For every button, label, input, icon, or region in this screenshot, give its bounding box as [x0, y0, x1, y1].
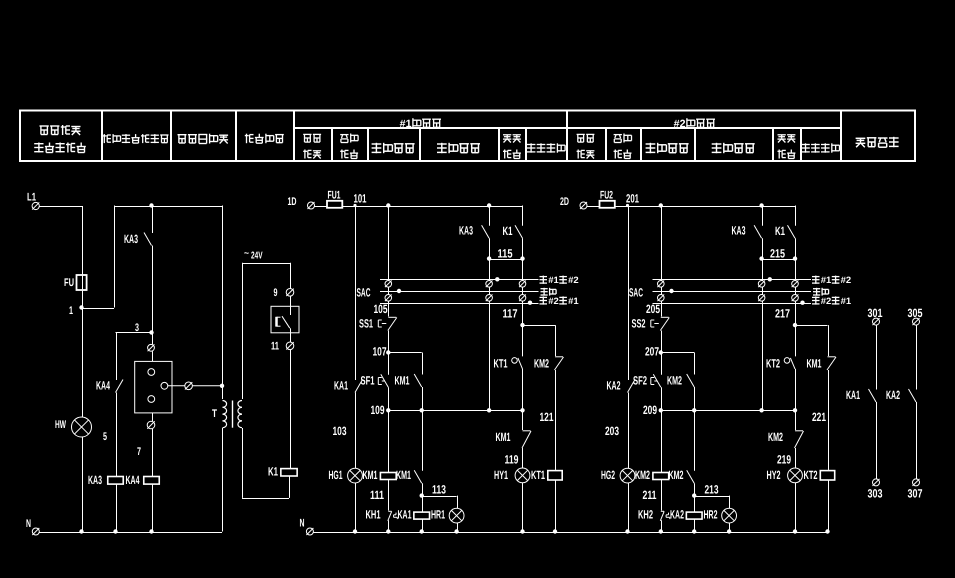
- terminal 11: [271, 328, 294, 352]
- svg-text:SAC: SAC: [629, 286, 643, 300]
- terminal above level-relay box: [148, 333, 155, 362]
- node 1D: [288, 196, 315, 209]
- svg-text:101: 101: [354, 192, 367, 206]
- svg-text:HR1: HR1: [431, 508, 445, 522]
- node N left: [26, 518, 39, 535]
- svg-text:SAC: SAC: [357, 286, 371, 300]
- coil KT2: [804, 468, 835, 482]
- wire label 215 connector: [759, 238, 797, 261]
- seal-in contact KM1: [388, 353, 424, 413]
- table cell: 控制变压器: [178, 134, 229, 144]
- wire top rail down to transformer primary: [222, 206, 224, 400]
- table cell: 返回信号: [856, 137, 899, 147]
- svg-text:FU2: FU2: [600, 190, 613, 202]
- svg-text:#1: #1: [548, 275, 559, 285]
- wire auto line to bus: [762, 303, 764, 411]
- lamp HR1: [422, 496, 464, 523]
- wire node1 up-branch to top rail: [82, 206, 222, 309]
- svg-text:203: 203: [605, 424, 619, 438]
- svg-text:L1: L1: [27, 192, 36, 204]
- table cell: 控制/电源: [577, 134, 595, 158]
- svg-text:7: 7: [137, 446, 141, 458]
- svg-text:1D: 1D: [288, 196, 297, 208]
- wire HY2 to N: [793, 483, 797, 534]
- coil KA4: [126, 473, 160, 487]
- svg-text:303: 303: [868, 487, 883, 501]
- contact KA3 (auto feed): [732, 206, 763, 239]
- wire HR2 to N: [727, 523, 731, 534]
- table cell: 自动控制: [437, 143, 480, 153]
- svg-text:KA2: KA2: [670, 508, 684, 522]
- level relay box: [135, 361, 172, 413]
- return signal terminal 303: [868, 402, 883, 501]
- svg-text:KA1: KA1: [398, 508, 412, 522]
- svg-text:KT1: KT1: [494, 357, 508, 371]
- svg-text:209: 209: [643, 403, 657, 417]
- svg-text:119: 119: [505, 453, 519, 467]
- svg-text:2D: 2D: [560, 196, 569, 208]
- wire coil KA1 to N: [420, 519, 424, 534]
- svg-text:#2: #2: [548, 296, 559, 306]
- interlock contact KM2: [523, 325, 564, 370]
- wire KH1 to N: [386, 520, 390, 533]
- svg-text:KM1: KM1: [396, 468, 411, 482]
- wire transformer primary bottom to N rail: [222, 428, 224, 532]
- table cell: 电接点温度自控: [103, 134, 169, 143]
- svg-text:HW: HW: [55, 419, 66, 431]
- table cell: 备用自投: [801, 143, 839, 152]
- wire manual/auto bus: [661, 408, 797, 412]
- selector switch SAC: [629, 277, 811, 305]
- SAC contacts on auto lines: [758, 259, 765, 303]
- wire label 107: [373, 331, 391, 359]
- svg-text:KT2: KT2: [766, 357, 780, 371]
- return signal terminal 307: [908, 402, 923, 501]
- svg-text:KM1: KM1: [807, 357, 822, 371]
- svg-text:213: 213: [705, 483, 719, 497]
- table header: #2泵控制: [674, 118, 715, 130]
- svg-text:K1: K1: [775, 224, 785, 238]
- fault NC contact KM2: [768, 410, 804, 448]
- delay contact KT2: [766, 325, 796, 410]
- lamp HG1: [329, 468, 363, 483]
- fault NC contact KM1: [496, 410, 532, 448]
- wire label 207: [645, 331, 663, 359]
- table cell: 手动控制: [646, 143, 689, 153]
- svg-text:KT1: KT1: [531, 468, 545, 482]
- contact KA1 (stop indication): [334, 206, 363, 393]
- svg-text:211: 211: [643, 488, 657, 502]
- coil KM2: [635, 410, 669, 482]
- contact K1 (auto feed): [503, 206, 523, 239]
- svg-text:KA2: KA2: [886, 388, 900, 402]
- node 2D: [560, 196, 587, 209]
- svg-text:109: 109: [371, 403, 385, 417]
- svg-text:KA4: KA4: [96, 379, 110, 393]
- svg-text:KH1: KH1: [366, 508, 381, 522]
- wire label 203: [605, 393, 629, 469]
- wire lamp HW to N: [79, 437, 83, 534]
- thermal contact KH2: [638, 480, 670, 522]
- svg-text:113: 113: [432, 483, 446, 497]
- wire label 221: [812, 370, 829, 471]
- svg-text:217: 217: [775, 307, 790, 321]
- wire label 209: [643, 387, 663, 417]
- wire coil KT2 to N: [825, 480, 829, 534]
- svg-text:219: 219: [777, 453, 791, 467]
- terminal 9: [274, 263, 294, 299]
- wire auto line to bus: [489, 303, 491, 411]
- svg-text:HR2: HR2: [704, 508, 718, 522]
- coil KA2: [670, 496, 702, 522]
- wire label 117: [503, 307, 525, 328]
- terminal below box, node 7: [137, 413, 155, 477]
- svg-text:9: 9: [274, 287, 278, 299]
- coil KA3: [88, 473, 123, 487]
- svg-text:K1: K1: [503, 224, 513, 238]
- svg-text:#2: #2: [841, 275, 852, 285]
- svg-text:205: 205: [646, 302, 660, 316]
- lamp HW: [55, 308, 107, 444]
- svg-text:HY1: HY1: [494, 468, 508, 482]
- svg-text:KA3: KA3: [88, 473, 102, 487]
- contact K1 (auto feed): [775, 206, 796, 239]
- contact KA2 (stop indication): [607, 206, 636, 393]
- svg-text:#1: #1: [400, 118, 412, 130]
- contact KA3 (top-left): [124, 206, 153, 247]
- wire label 113: [420, 483, 447, 498]
- svg-text:KT2: KT2: [804, 468, 818, 482]
- fuse FU: [64, 275, 87, 290]
- svg-text:117: 117: [503, 307, 518, 321]
- return signal terminal 301: [868, 306, 883, 325]
- table cell: 控制电源/保护及指示: [34, 125, 86, 153]
- svg-text:105: 105: [374, 302, 388, 316]
- wire HG1 to N: [353, 483, 357, 534]
- seal-in contact KM2: [661, 353, 697, 413]
- coil K1: [268, 465, 297, 479]
- table cell: 故障/指示: [778, 135, 796, 159]
- return signal contact KA2: [886, 325, 917, 402]
- wire HG2 to N: [625, 483, 629, 534]
- table cell: 自动控制: [712, 143, 755, 153]
- svg-text:KA3: KA3: [124, 232, 138, 246]
- svg-text:KM2: KM2: [635, 468, 650, 482]
- lamp HY2: [767, 468, 803, 483]
- svg-text:#1: #1: [821, 275, 832, 285]
- svg-text:KM2: KM2: [669, 468, 684, 482]
- lamp HG2: [601, 468, 635, 483]
- node 3: [135, 322, 154, 335]
- svg-text:T: T: [212, 408, 217, 420]
- wire HR1 to N: [454, 523, 458, 534]
- svg-text:KA2: KA2: [607, 379, 621, 393]
- wire HY1 to N: [520, 483, 524, 534]
- svg-text:HG1: HG1: [329, 468, 343, 482]
- svg-text:SS1: SS1: [359, 317, 373, 331]
- lamp HR2: [694, 496, 736, 523]
- wire coil KA3 to N: [113, 484, 117, 534]
- wire secondary top to 24V rail: [242, 263, 290, 399]
- svg-text:201: 201: [626, 192, 639, 206]
- wire KA4 contact to coil KA3: [116, 393, 118, 477]
- svg-text:KA3: KA3: [732, 224, 746, 238]
- svg-text:KA4: KA4: [126, 473, 140, 487]
- svg-text:K1: K1: [268, 465, 278, 479]
- svg-text:307: 307: [908, 487, 923, 501]
- svg-text:KM1: KM1: [363, 468, 378, 482]
- wire label 217: [775, 307, 797, 328]
- svg-text:#1: #1: [568, 296, 579, 306]
- SAC contacts on auto lines: [486, 259, 493, 303]
- svg-text:KM2: KM2: [534, 357, 549, 371]
- wire label 101 (control rail): [353, 192, 491, 208]
- wire label 219: [777, 448, 796, 468]
- table cell: 故障/指示: [503, 135, 521, 159]
- SAC contacts on control line: [385, 280, 392, 301]
- wire label 103: [333, 393, 356, 469]
- wire coil K1 back to secondary: [242, 428, 290, 499]
- svg-text:#2: #2: [821, 296, 832, 306]
- wire label 201 (control rail): [626, 192, 764, 208]
- thermal contact KH1: [366, 480, 398, 522]
- svg-text:SF1: SF1: [361, 374, 375, 388]
- svg-text:KM1: KM1: [395, 374, 410, 388]
- svg-text:107: 107: [373, 345, 387, 359]
- svg-text:24V: 24V: [251, 251, 263, 262]
- svg-text:KA3: KA3: [459, 224, 473, 238]
- lamp HY1: [494, 468, 530, 483]
- contact KA4: [96, 379, 123, 393]
- wire label 213: [692, 483, 719, 498]
- label ~24V: [244, 248, 263, 262]
- header table frame: [20, 111, 915, 162]
- auxiliary contact KM2: [669, 410, 695, 483]
- svg-text:207: 207: [645, 345, 659, 359]
- contact KA3 (auto feed): [459, 206, 490, 239]
- wire KH2 to N: [659, 520, 663, 533]
- wire label 121: [540, 370, 556, 471]
- SAC contacts on control line: [657, 280, 664, 301]
- wire fuse to node 1: [82, 290, 84, 308]
- svg-text:221: 221: [812, 410, 826, 424]
- fuse FU2: [587, 190, 795, 208]
- node 1: [69, 305, 84, 317]
- stop pushbutton SS1: [359, 317, 397, 331]
- svg-text:~: ~: [244, 248, 249, 258]
- svg-text:KM1: KM1: [496, 430, 511, 444]
- svg-text:KA1: KA1: [846, 388, 860, 402]
- stop pushbutton SS2: [632, 317, 670, 331]
- start pushbutton SF1: [361, 353, 389, 388]
- coil KM1: [363, 410, 397, 482]
- svg-text:215: 215: [770, 247, 785, 261]
- interlock contact KM1: [795, 325, 836, 370]
- svg-text:1: 1: [69, 305, 73, 317]
- node N (pump sections): [300, 518, 314, 536]
- wire node3 left branch: [116, 333, 152, 381]
- SAC position labels: [540, 275, 579, 306]
- table cell: 备用自投: [527, 143, 565, 152]
- wire L1 to fuse line: [39, 206, 82, 275]
- svg-text:FU: FU: [64, 277, 74, 289]
- svg-text:#2: #2: [674, 118, 686, 130]
- wire terminal 11 to coil K1: [290, 350, 292, 469]
- svg-text:SF2: SF2: [633, 374, 647, 388]
- svg-text:HY2: HY2: [767, 468, 781, 482]
- wire coil KA4 to N: [149, 484, 153, 534]
- return signal contact KA1: [846, 325, 877, 402]
- junction on top rail: [149, 203, 153, 207]
- svg-text:5: 5: [103, 431, 107, 443]
- node L1: [27, 192, 39, 210]
- wire control line through SAC: [388, 206, 390, 317]
- svg-text:#1: #1: [841, 296, 852, 306]
- return signal terminal 305: [908, 306, 923, 325]
- svg-text:N: N: [300, 518, 305, 530]
- svg-text:KM2: KM2: [768, 430, 783, 444]
- svg-text:#2: #2: [568, 275, 579, 285]
- table header: #1泵控制: [400, 118, 441, 130]
- wire manual/auto bus: [388, 408, 524, 412]
- table cell: 控制/电源: [303, 134, 321, 158]
- svg-text:111: 111: [370, 488, 384, 502]
- wire label 115 connector: [487, 238, 525, 261]
- svg-text:KM2: KM2: [667, 374, 682, 388]
- wire box mid terminal to transformer line: [168, 382, 224, 390]
- table cell: 手动控制: [372, 143, 415, 153]
- svg-text:HG2: HG2: [601, 468, 615, 482]
- wire control line through SAC: [661, 206, 663, 317]
- svg-text:N: N: [26, 518, 31, 530]
- wire coil KT1 to N: [553, 480, 557, 534]
- wire label 109: [371, 387, 391, 417]
- svg-text:103: 103: [333, 424, 347, 438]
- svg-text:SS2: SS2: [632, 317, 646, 331]
- external control box K: [271, 296, 299, 333]
- N rail pump sections: [313, 532, 827, 534]
- wire KA3 contact to node 3: [152, 246, 154, 333]
- selector switch SAC: [357, 277, 539, 305]
- start pushbutton SF2: [633, 353, 662, 388]
- wire label 119: [505, 448, 523, 468]
- svg-text:11: 11: [271, 341, 279, 353]
- auxiliary contact KM1: [396, 410, 423, 483]
- N rail left section: [39, 532, 222, 534]
- fuse FU1: [315, 190, 523, 208]
- svg-text:KA1: KA1: [334, 379, 348, 393]
- coil KT1: [531, 468, 562, 482]
- svg-text:KH2: KH2: [638, 508, 653, 522]
- SAC position labels: [812, 275, 851, 306]
- svg-text:121: 121: [540, 410, 554, 424]
- table cell: 楼宇外控: [245, 134, 284, 144]
- table cell: 停泵/指示: [340, 134, 358, 159]
- svg-text:115: 115: [498, 247, 513, 261]
- transformer T: [212, 401, 242, 428]
- wire coil KA2 to N: [692, 519, 696, 534]
- svg-text:FU1: FU1: [328, 190, 341, 202]
- delay contact KT1: [494, 325, 523, 410]
- coil KA1: [398, 496, 430, 522]
- table cell: 停泵/指示: [614, 134, 632, 159]
